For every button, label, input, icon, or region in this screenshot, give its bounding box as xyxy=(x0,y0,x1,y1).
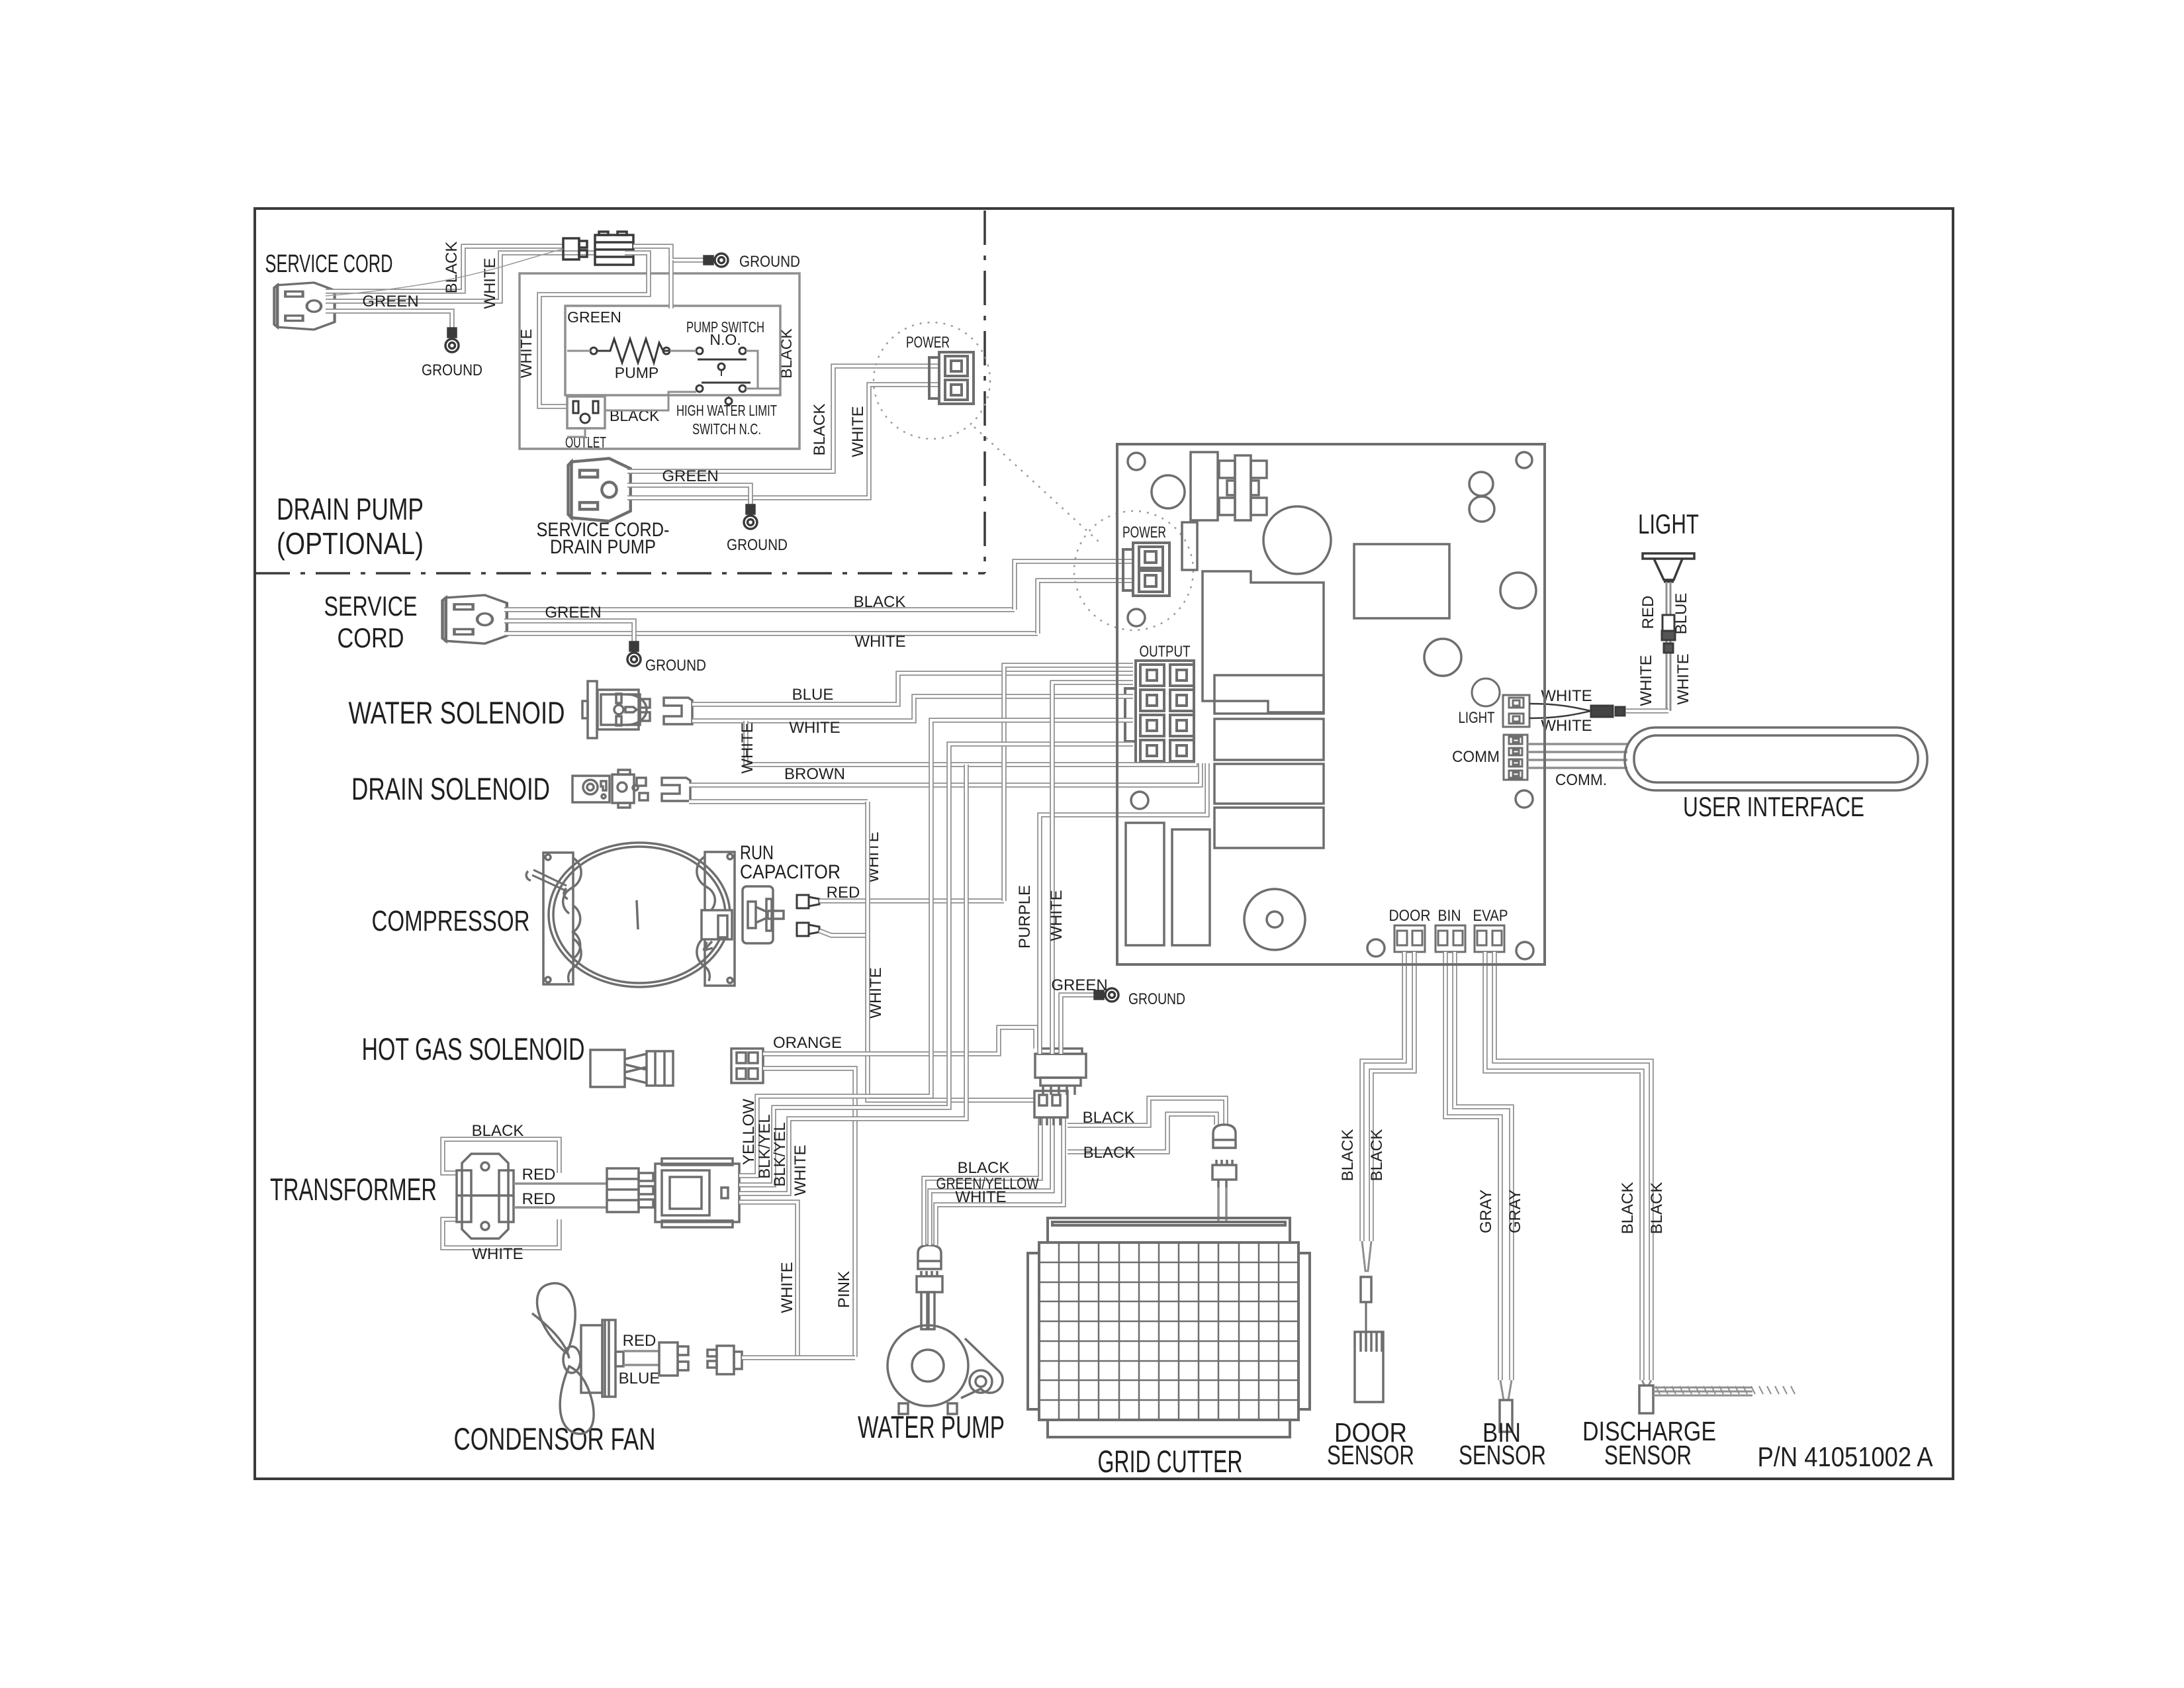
svg-text:CAPACITOR: CAPACITOR xyxy=(740,861,841,883)
svg-text:SERVICE: SERVICE xyxy=(324,590,418,622)
svg-text:WHITE: WHITE xyxy=(472,1245,523,1263)
svg-text:BLACK: BLACK xyxy=(1648,1182,1666,1235)
board hole bottom left of door xyxy=(1367,939,1385,957)
user interface xyxy=(1625,727,1927,790)
door sensor body xyxy=(1355,1332,1383,1402)
svg-text:SENSOR: SENSOR xyxy=(1604,1440,1692,1470)
board big circle (cap) xyxy=(1263,506,1331,574)
svg-text:LIGHT: LIGHT xyxy=(1638,508,1699,539)
ground lug (drain pump cord) xyxy=(744,505,757,529)
wire RED run capacitor to OUTPUT trunk xyxy=(819,898,1004,904)
wire PURPLE connector to OUTPUT xyxy=(1040,763,1207,1054)
wire light to connector pair xyxy=(1626,708,1668,714)
wire BLACK door sensor 1 xyxy=(1362,952,1404,1241)
comm wires board to user interface xyxy=(1527,743,1627,745)
wire BLACK discharge sensor 1 xyxy=(1485,952,1642,1380)
wire BLACK riser to power pin xyxy=(1015,561,1133,610)
board circle right xyxy=(1500,573,1536,608)
svg-text:WHITE: WHITE xyxy=(739,722,756,773)
drain solenoid symbol xyxy=(572,770,648,808)
grid cutter body xyxy=(1028,1218,1310,1437)
svg-text:BLACK: BLACK xyxy=(1339,1129,1357,1182)
POWER connector (board) xyxy=(1123,543,1169,596)
svg-text:BLACK: BLACK xyxy=(443,242,461,294)
svg-text:COMPRESSOR: COMPRESSOR xyxy=(372,905,530,937)
svg-text:BLACK: BLACK xyxy=(854,593,906,611)
svg-text:N.O.: N.O. xyxy=(709,331,741,348)
outlet (drain pump receptacle) xyxy=(567,397,605,428)
thin white wires to LIGHT connector xyxy=(1529,704,1591,718)
svg-text:DRAIN PUMP: DRAIN PUMP xyxy=(277,492,424,526)
service cord plug (main) xyxy=(443,595,507,643)
board relay rects (4 stacked) xyxy=(1214,675,1324,714)
svg-text:BLACK: BLACK xyxy=(1083,1144,1136,1162)
svg-text:(OPTIONAL): (OPTIONAL) xyxy=(277,526,424,561)
wire WHITE transformer down to fan xyxy=(739,1202,797,1357)
svg-text:WATER SOLENOID: WATER SOLENOID xyxy=(349,695,565,730)
svg-text:RED: RED xyxy=(1639,596,1657,630)
water pump connector (top) xyxy=(917,1245,942,1292)
fan connector 1 xyxy=(659,1342,688,1376)
svg-text:BLACK: BLACK xyxy=(472,1122,524,1140)
wire WHITE connector to outlet xyxy=(539,253,649,406)
wire RED riser to OUTPUT xyxy=(1004,665,1133,901)
svg-text:OUTPUT: OUTPUT xyxy=(1140,643,1191,661)
transformer 4-pin connector xyxy=(607,1168,653,1212)
svg-text:PINK: PINK xyxy=(835,1271,853,1308)
wire BLUE light down xyxy=(1670,582,1672,711)
wire GREEN into pump box xyxy=(668,260,674,308)
svg-text:PURPLE: PURPLE xyxy=(1016,885,1034,949)
svg-text:EVAP: EVAP xyxy=(1473,907,1508,925)
light fixture xyxy=(1643,553,1694,581)
svg-text:GROUND: GROUND xyxy=(645,657,706,675)
pump switch N.O. xyxy=(696,348,703,354)
wire switch link xyxy=(746,351,758,389)
light wire connector pair xyxy=(1591,706,1625,717)
svg-text:WHITE: WHITE xyxy=(789,719,840,737)
wire GREEN service cord to ground xyxy=(504,621,634,648)
wire to top ground lug xyxy=(633,246,710,260)
ground lug (main service cord) xyxy=(627,642,641,666)
board power detail bubble xyxy=(1074,511,1193,630)
svg-text:PUMP: PUMP xyxy=(615,364,659,381)
svg-text:SENSOR: SENSOR xyxy=(1459,1440,1546,1470)
svg-text:GREEN: GREEN xyxy=(662,467,718,485)
wire WHITE drain pump cord to POWER xyxy=(627,385,939,498)
grid cutter wire grid xyxy=(1039,1243,1298,1420)
svg-text:GRAY: GRAY xyxy=(1477,1190,1495,1233)
svg-text:BLUE: BLUE xyxy=(619,1370,660,1387)
board relay (vertical rect) xyxy=(1191,452,1218,520)
wire BLACK door sensor 2 xyxy=(1371,952,1414,1241)
board hole bottom right xyxy=(1516,942,1533,959)
spade terminal (run capacitor red) xyxy=(797,895,819,908)
wire WHITE water solenoid to OUTPUT xyxy=(692,696,1133,721)
wire WHITE connector to OUTPUT xyxy=(1052,682,1133,1054)
board buzzer xyxy=(1472,679,1500,706)
wire BLACK service cord to connector xyxy=(326,246,563,291)
svg-text:WHITE: WHITE xyxy=(1637,655,1655,706)
svg-text:LIGHT: LIGHT xyxy=(1459,709,1495,727)
diagram outer border xyxy=(255,209,1953,1479)
svg-text:BROWN: BROWN xyxy=(784,765,845,783)
wire WHITE transformer loop xyxy=(443,1219,559,1248)
pump circuit outer box / black-white wiring loop xyxy=(520,273,799,449)
wire WHITE trunk down to pump connector xyxy=(868,802,1034,1100)
wire WHITE service cord to connector xyxy=(326,253,595,301)
svg-text:BLACK: BLACK xyxy=(1083,1109,1135,1127)
board mounting hole below power xyxy=(1128,609,1145,626)
wire BLACK discharge sensor 2 xyxy=(1494,952,1651,1380)
svg-text:GREEN: GREEN xyxy=(567,308,621,326)
wire BLACK service cord to power xyxy=(504,607,1015,612)
OUTPUT connector (8-pin) xyxy=(1125,661,1194,763)
discharge sensor thread xyxy=(1653,1387,1752,1395)
svg-text:COMM: COMM xyxy=(1452,748,1500,766)
wire fan connector to pink/white trunks xyxy=(742,1355,855,1360)
wire RED transformer 2 xyxy=(514,1206,607,1209)
wire BLACK cutter 2 xyxy=(1068,1114,1216,1152)
wire outlet to limit switch xyxy=(605,392,696,410)
svg-text:YELLOW: YELLOW xyxy=(740,1099,758,1165)
wire BLACK transformer loop xyxy=(443,1139,559,1173)
svg-text:CORD: CORD xyxy=(338,622,404,653)
svg-text:BLK/YEL: BLK/YEL xyxy=(771,1122,789,1186)
svg-text:GRID CUTTER: GRID CUTTER xyxy=(1098,1444,1243,1479)
board circle component xyxy=(1152,475,1185,508)
svg-text:GREEN: GREEN xyxy=(362,293,418,310)
wire WHITE service cord to power xyxy=(504,631,1038,636)
svg-text:DOOR: DOOR xyxy=(1389,907,1431,925)
board circles top right xyxy=(1469,472,1493,496)
spade terminal (run capacitor white) xyxy=(797,923,819,936)
wire RED transformer xyxy=(514,1182,607,1185)
svg-text:WHITE: WHITE xyxy=(1541,687,1592,705)
svg-text:BLACK: BLACK xyxy=(1368,1129,1386,1182)
wire WHITE water pump to cutter switch xyxy=(936,1117,1064,1245)
inline connector pair (drain pump cord) xyxy=(563,232,633,265)
svg-text:BLACK: BLACK xyxy=(958,1159,1010,1177)
svg-text:BIN: BIN xyxy=(1438,907,1461,925)
svg-text:WHITE: WHITE xyxy=(792,1145,809,1196)
service cord plug (drain pump) xyxy=(274,283,334,330)
svg-text:SENSOR: SENSOR xyxy=(1327,1440,1414,1470)
svg-text:USER INTERFACE: USER INTERFACE xyxy=(1683,791,1864,822)
drain solenoid connector xyxy=(662,778,690,801)
board IC with pins xyxy=(1219,455,1267,520)
svg-text:SERVICE CORD: SERVICE CORD xyxy=(265,250,393,278)
hot gas solenoid symbol xyxy=(590,1050,673,1087)
wire BLK/YEL 2 transformer up xyxy=(739,765,966,1194)
3-pin connector (cutter) xyxy=(1034,1091,1068,1125)
svg-text:WHITE: WHITE xyxy=(854,633,905,651)
svg-text:RED: RED xyxy=(827,884,860,902)
condensor fan blades and motor xyxy=(532,1284,623,1434)
light inline connectors xyxy=(1662,615,1675,653)
grid cutter power connector (male) xyxy=(1212,1160,1236,1188)
svg-text:COMM.: COMM. xyxy=(1555,771,1607,789)
svg-text:HOT GAS SOLENOID: HOT GAS SOLENOID xyxy=(362,1031,585,1066)
ground lug (top, drain pump) xyxy=(704,254,728,267)
run capacitor symbol xyxy=(743,886,784,943)
wire GRAY bin sensor 2 xyxy=(1455,952,1512,1380)
svg-text:WATER PUMP: WATER PUMP xyxy=(858,1409,1005,1444)
wire RED light down xyxy=(1666,582,1668,711)
wire BLACK drain pump cord to POWER xyxy=(627,366,939,471)
wire GREEN drain pump cord to ground xyxy=(627,485,751,511)
svg-text:RED: RED xyxy=(522,1190,556,1208)
leader line bubble to board power xyxy=(974,427,1099,541)
wire BLUE fan xyxy=(623,1364,659,1366)
service cord drain pump plug xyxy=(568,459,630,522)
ground lug (mid) xyxy=(1095,988,1118,1002)
svg-text:P/N 41051002 A: P/N 41051002 A xyxy=(1758,1441,1933,1472)
pump coil (drain pump motor) xyxy=(590,348,597,354)
board mounting hole top-left xyxy=(1128,453,1145,470)
svg-text:POWER: POWER xyxy=(1122,524,1166,541)
wire GREEN/YELLOW water pump to cutter switch xyxy=(930,1117,1052,1245)
svg-text:WHITE: WHITE xyxy=(518,329,535,378)
hot gas connector xyxy=(731,1049,763,1083)
door sensor plug xyxy=(1362,1241,1371,1271)
drain pump section divider (dash-dot vertical) xyxy=(983,211,986,573)
svg-text:RED: RED xyxy=(522,1166,556,1184)
grid cutter power connector (female) xyxy=(1213,1125,1236,1148)
wire GREEN service cord to ground xyxy=(326,311,452,334)
wire BLACK water pump to cutter switch xyxy=(924,1117,1040,1245)
wire PINK hot gas down to fan xyxy=(763,1068,855,1357)
wire RED fan xyxy=(623,1350,659,1352)
svg-text:CONDENSOR FAN: CONDENSOR FAN xyxy=(454,1421,656,1456)
board hole near comm xyxy=(1516,790,1533,808)
svg-text:WHITE: WHITE xyxy=(1541,717,1592,735)
wire GREEN to ground lug xyxy=(1061,995,1100,1054)
board stepped polygon (heatsink) xyxy=(1203,571,1324,712)
COMM connector (board) xyxy=(1504,735,1527,780)
LIGHT connector (board) xyxy=(1503,695,1529,727)
svg-text:BLACK: BLACK xyxy=(1619,1182,1637,1235)
board circle mid-right xyxy=(1424,639,1461,676)
svg-text:GROUND: GROUND xyxy=(422,361,482,379)
wire cutter feed 2 xyxy=(1225,1188,1228,1222)
wire YELLOW transformer to OUTPUT xyxy=(739,720,1133,1176)
fan connector 2 xyxy=(707,1346,742,1374)
ground lug (service cord drain pump) xyxy=(445,328,459,352)
board hole left xyxy=(1131,792,1148,809)
control board outline xyxy=(1117,444,1545,964)
svg-text:HIGH WATER LIMIT: HIGH WATER LIMIT xyxy=(676,402,777,419)
svg-text:TRANSFORMER: TRANSFORMER xyxy=(270,1172,437,1207)
water pump body xyxy=(887,1292,1003,1414)
svg-text:RED: RED xyxy=(623,1332,657,1350)
wire run capacitor to white trunk xyxy=(819,931,868,935)
discharge sensor probe xyxy=(1642,1380,1651,1385)
svg-text:SWITCH N.C.: SWITCH N.C. xyxy=(692,420,761,438)
control board outline (re-stroke over crossing wires) xyxy=(1117,444,1545,964)
svg-text:WHITE: WHITE xyxy=(1048,890,1066,941)
svg-text:BLUE: BLUE xyxy=(792,686,834,704)
high water limit switch N.C. xyxy=(696,385,703,392)
svg-text:WHITE: WHITE xyxy=(1674,653,1692,704)
board large rect (relay) xyxy=(1354,544,1449,618)
svg-text:GROUND: GROUND xyxy=(739,253,800,271)
POWER connector (drain pump detail) xyxy=(929,352,974,404)
wire BLUE water solenoid to OUTPUT xyxy=(692,673,1133,704)
discharge sensor body xyxy=(1639,1385,1653,1413)
POWER connector detail bubble xyxy=(874,322,990,439)
drain pump section divider (dash-dot horizontal) xyxy=(255,572,985,575)
water solenoid connector xyxy=(664,698,692,724)
svg-text:DRAIN PUMP: DRAIN PUMP xyxy=(550,536,656,558)
svg-text:DRAIN SOLENOID: DRAIN SOLENOID xyxy=(351,771,550,806)
transformer mating connector (big) xyxy=(655,1158,739,1227)
wire cutter feed 1 xyxy=(1217,1188,1220,1222)
svg-text:ORANGE: ORANGE xyxy=(773,1034,842,1052)
EVAP connector (board) xyxy=(1475,925,1504,952)
wire WHITE drain solenoid down xyxy=(689,799,868,804)
wire ORANGE hot gas to connector xyxy=(763,1027,1036,1054)
svg-text:BLACK: BLACK xyxy=(811,404,829,456)
bin sensor body xyxy=(1500,1400,1512,1432)
board vertical rects bottom-left xyxy=(1126,823,1164,945)
board speaker circle xyxy=(1244,889,1305,950)
svg-text:WHITE: WHITE xyxy=(778,1262,796,1313)
wire GRAY bin sensor 1 xyxy=(1445,952,1500,1380)
pump circuit inner box xyxy=(565,306,780,395)
wire BLK/YEL transformer to OUTPUT xyxy=(739,744,1133,1185)
svg-text:GREEN: GREEN xyxy=(545,604,601,622)
svg-text:GRAY: GRAY xyxy=(1506,1190,1524,1233)
DOOR connector (board) xyxy=(1394,925,1425,952)
svg-text:WHITE: WHITE xyxy=(849,406,867,457)
4-pin connector (mid) xyxy=(1035,1049,1086,1095)
bin sensor probe xyxy=(1500,1380,1512,1400)
svg-text:WHITE: WHITE xyxy=(955,1188,1006,1206)
wire BROWN drain solenoid to OUTPUT xyxy=(689,763,1201,785)
water solenoid symbol xyxy=(582,681,650,738)
wire WHITE riser to power pin xyxy=(1038,581,1133,633)
svg-text:WHITE: WHITE xyxy=(481,258,499,308)
wire WHITE branch to OUTPUT right column xyxy=(746,721,1195,765)
compressor body xyxy=(526,843,735,987)
svg-text:POWER: POWER xyxy=(906,334,950,352)
transformer core xyxy=(457,1154,514,1239)
svg-text:GROUND: GROUND xyxy=(727,536,788,554)
board small rect component xyxy=(1182,522,1197,570)
wire BLACK cutter 1 xyxy=(1068,1098,1226,1125)
BIN connector (board) xyxy=(1435,925,1465,952)
svg-text:GROUND: GROUND xyxy=(1128,990,1185,1008)
